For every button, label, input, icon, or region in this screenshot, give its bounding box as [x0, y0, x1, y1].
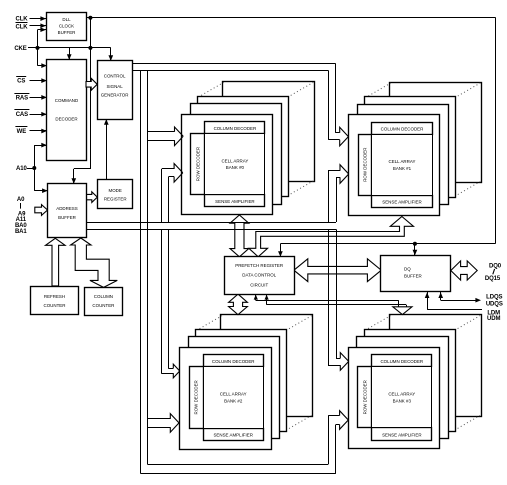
svg-text:BUFFER: BUFFER	[58, 215, 76, 220]
svg-text:BA1: BA1	[15, 229, 27, 235]
svg-text:CLK: CLK	[15, 16, 28, 22]
svg-text:BUFFER: BUFFER	[404, 273, 422, 278]
svg-text:DQ15: DQ15	[485, 276, 501, 282]
svg-text:CIRCUIT: CIRCUIT	[250, 283, 268, 288]
svg-text:COLUMN DECODER: COLUMN DECODER	[381, 127, 424, 132]
svg-text:COUNTER: COUNTER	[44, 303, 66, 308]
svg-text:ROW DECODER: ROW DECODER	[194, 380, 199, 414]
svg-text:REGISTER: REGISTER	[104, 196, 127, 201]
svg-text:PREFETCH REGISTER: PREFETCH REGISTER	[235, 263, 283, 268]
svg-text:A10: A10	[16, 166, 27, 172]
svg-text:CELL ARRAY: CELL ARRAY	[220, 392, 247, 397]
svg-text:UDM: UDM	[487, 316, 500, 322]
svg-text:CLOCK: CLOCK	[59, 24, 74, 29]
svg-text:CELL ARRAY: CELL ARRAY	[388, 392, 415, 397]
svg-text:MODE: MODE	[109, 188, 122, 193]
svg-text:SIGNAL: SIGNAL	[106, 84, 123, 89]
svg-text:RAS: RAS	[16, 95, 28, 101]
svg-text:WE: WE	[17, 129, 27, 135]
svg-text:REFRESH: REFRESH	[44, 294, 65, 299]
svg-text:CELL ARRAY: CELL ARRAY	[389, 159, 416, 164]
svg-text:CAS: CAS	[16, 112, 28, 118]
svg-text:DQ: DQ	[404, 267, 411, 272]
svg-text:ROW DECODER: ROW DECODER	[195, 147, 200, 181]
svg-text:LDQS: LDQS	[486, 294, 502, 300]
svg-text:CKE: CKE	[14, 46, 26, 52]
svg-text:CELL ARRAY: CELL ARRAY	[221, 158, 248, 163]
svg-text:SENSE AMPLIFIER: SENSE AMPLIFIER	[382, 432, 421, 437]
svg-text:COMMAND: COMMAND	[55, 98, 78, 103]
svg-text:DQ0: DQ0	[489, 263, 502, 269]
svg-text:DATA CONTROL: DATA CONTROL	[242, 273, 276, 278]
svg-text:BANK #0: BANK #0	[226, 165, 245, 170]
svg-text:GENERATOR: GENERATOR	[101, 93, 129, 98]
svg-text:COLUMN DECODER: COLUMN DECODER	[380, 359, 423, 364]
svg-text:DECODER: DECODER	[55, 117, 77, 122]
svg-text:BANK #1: BANK #1	[393, 166, 412, 171]
svg-text:ADDRESS: ADDRESS	[56, 206, 77, 211]
svg-text:CLK: CLK	[15, 25, 28, 31]
svg-text:DLL: DLL	[62, 17, 71, 22]
svg-text:COLUMN: COLUMN	[94, 294, 113, 299]
svg-text:UDQS: UDQS	[486, 301, 503, 307]
svg-text:BUFFER: BUFFER	[58, 30, 76, 35]
svg-text:COUNTER: COUNTER	[92, 303, 114, 308]
svg-text:SENSE AMPLIFIER: SENSE AMPLIFIER	[213, 432, 252, 437]
svg-text:A0: A0	[17, 197, 25, 203]
svg-text:ROW DECODER: ROW DECODER	[362, 148, 367, 182]
svg-text:CONTROL: CONTROL	[104, 74, 126, 79]
svg-text:COLUMN DECODER: COLUMN DECODER	[214, 126, 257, 131]
svg-text:BANK #2: BANK #2	[224, 399, 243, 404]
svg-text:BANK #3: BANK #3	[393, 398, 412, 403]
svg-text:SENSE AMPLIFIER: SENSE AMPLIFIER	[382, 200, 421, 205]
svg-text:ROW DECODER: ROW DECODER	[362, 380, 367, 414]
svg-text:COLUMN DECODER: COLUMN DECODER	[212, 359, 255, 364]
svg-text:CS: CS	[17, 79, 25, 85]
svg-text:SENSE AMPLIFIER: SENSE AMPLIFIER	[215, 199, 254, 204]
